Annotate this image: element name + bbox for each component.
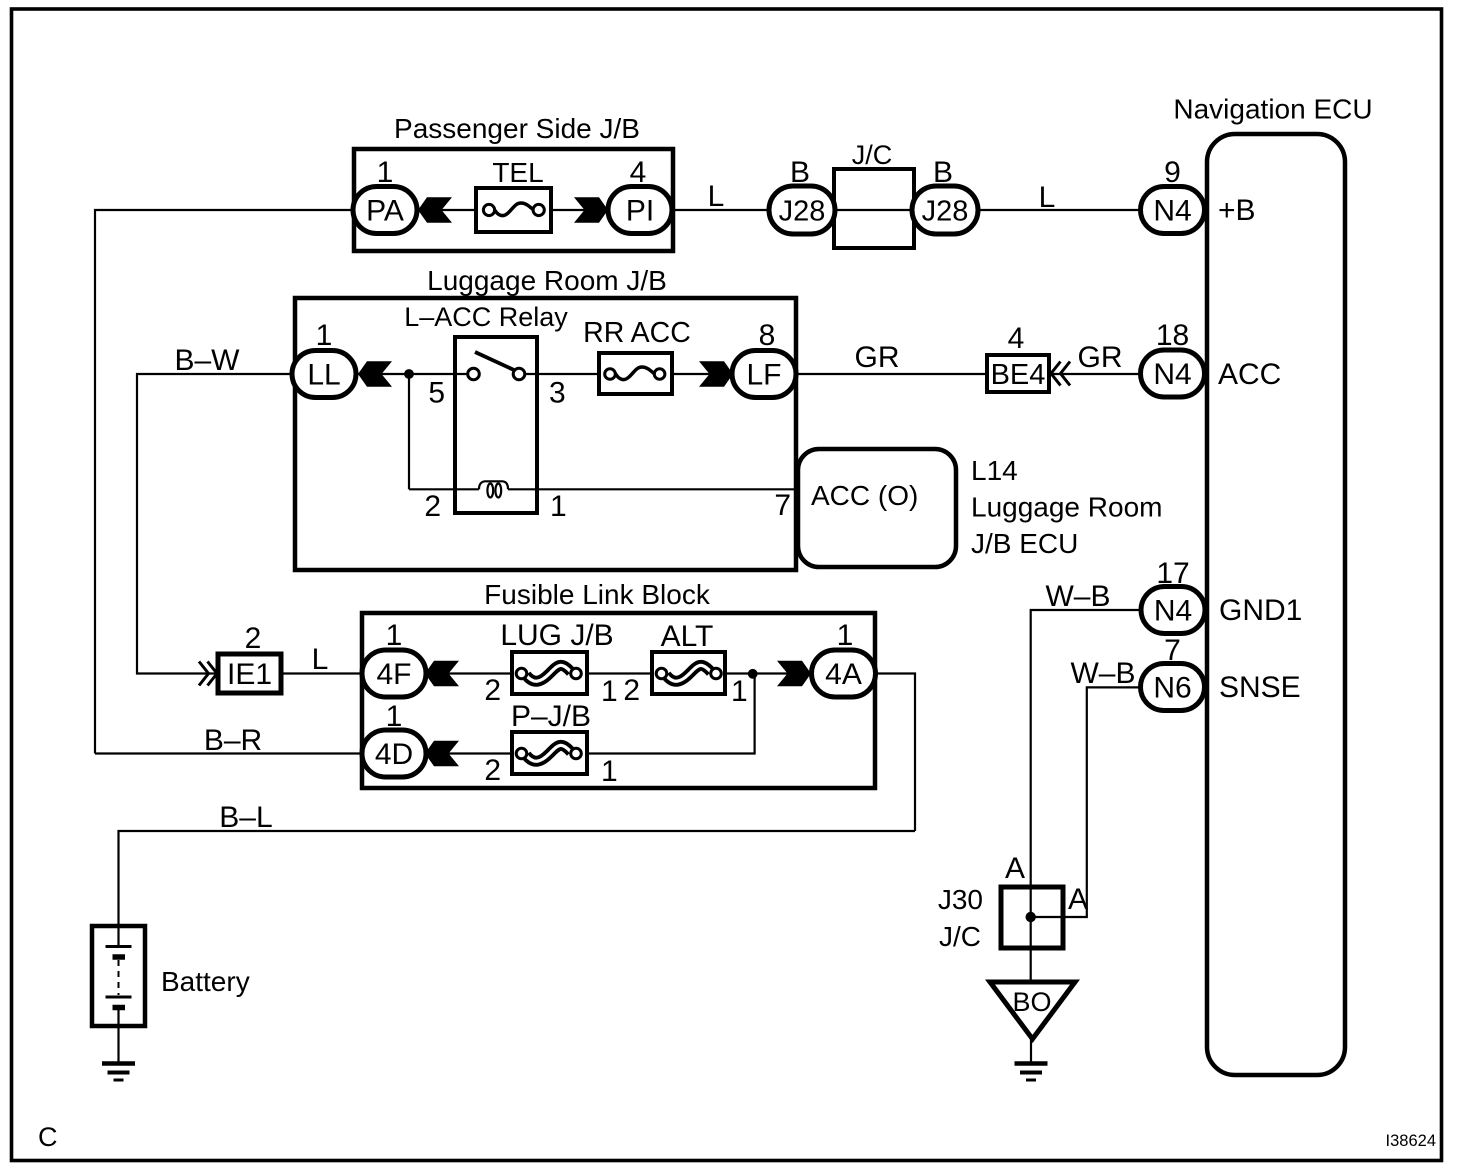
svg-text:1: 1 — [377, 156, 394, 189]
wire: 4D to P-J/B — [424, 752, 514, 754]
wire GR: BE4 to N4 pin 18 — [1047, 373, 1143, 375]
arrow: male into PI — [574, 197, 608, 222]
wire B-L: battery to 4A riser — [119, 831, 916, 946]
wire: RR ACC to LF — [670, 373, 735, 375]
relay contacts and blade — [468, 352, 525, 380]
wire: BO triangle to ground — [1030, 1036, 1032, 1062]
fusible link LUG J/B box — [512, 652, 587, 694]
fuse RR ACC element — [583, 317, 691, 380]
svg-text:7: 7 — [774, 489, 791, 522]
wire: inside J/C square — [836, 209, 912, 211]
svg-text:2: 2 — [623, 674, 640, 707]
fuse RR ACC box — [599, 353, 672, 394]
connector 4D pin 1 — [362, 700, 426, 777]
svg-text:Navigation ECU: Navigation ECU — [1173, 94, 1372, 125]
connector 4F pin 1 — [362, 619, 426, 697]
svg-text:J/C: J/C — [939, 921, 981, 952]
wire: coil row right to ACC (O) pin 7 — [508, 488, 799, 490]
svg-text:9: 9 — [1164, 156, 1181, 189]
svg-text:4: 4 — [1008, 322, 1025, 355]
svg-text:1: 1 — [731, 675, 748, 708]
svg-text:Passenger Side J/B: Passenger Side J/B — [394, 113, 640, 144]
fuse TEL element — [483, 157, 544, 216]
wire: 4A right to riser down to B-L — [874, 674, 915, 832]
fusible link P-J/B element — [511, 700, 591, 761]
svg-text:GND1: GND1 — [1219, 594, 1302, 627]
svg-text:BO: BO — [1012, 987, 1051, 1017]
wire: 4F to LUG J/B — [424, 672, 514, 674]
svg-text:4F: 4F — [376, 658, 411, 691]
connector BE4 box — [987, 355, 1049, 392]
svg-text:+B: +B — [1218, 194, 1256, 227]
svg-text:2: 2 — [424, 490, 441, 523]
svg-text:PA: PA — [366, 195, 404, 228]
svg-text:L14: L14 — [971, 455, 1018, 486]
wire: LUG J/B to ALT — [585, 672, 654, 674]
svg-text:GR: GR — [855, 341, 900, 374]
wire: coil row left — [409, 488, 479, 490]
chevrons: wire continuation at BE4 — [1051, 362, 1070, 386]
connector N4 pin 17 (GND1) — [1141, 557, 1205, 634]
svg-text:PI: PI — [626, 195, 654, 228]
svg-text:IE1: IE1 — [227, 658, 272, 691]
junction node inside J30 — [1026, 912, 1036, 922]
connector J28 left, net B — [769, 156, 835, 234]
wire: LL to relay contact, with junction — [353, 373, 469, 375]
arrow: male into 4A — [777, 661, 811, 686]
svg-text:ACC (O): ACC (O) — [811, 480, 918, 511]
svg-text:7: 7 — [1164, 634, 1181, 667]
svg-text:B–L: B–L — [219, 801, 272, 834]
wire: TEL to PI — [549, 209, 610, 211]
svg-text:L: L — [312, 643, 329, 676]
connector LL pin 1 — [292, 319, 356, 398]
relay coil — [479, 481, 508, 497]
svg-text:J/C: J/C — [852, 140, 893, 170]
svg-text:B–W: B–W — [174, 344, 240, 377]
wire L: IE1 to 4F — [279, 672, 364, 674]
arrow: female into 4F — [425, 661, 459, 686]
svg-text:4D: 4D — [375, 738, 413, 771]
ground shield BO triangle — [990, 982, 1075, 1039]
arrow: male into LF — [699, 361, 733, 386]
svg-text:1: 1 — [601, 675, 618, 708]
ground (BO) — [1015, 1064, 1048, 1081]
wire L: J28 to N4 pin 9 — [972, 209, 1143, 211]
fusible link ALT element — [656, 620, 721, 681]
battery cell plates — [106, 947, 132, 1008]
wire: battery to ground — [117, 1008, 119, 1062]
wire W-B: N4 pin 17 GND1 to J30 and BO — [1031, 610, 1143, 983]
Luggage Room J/B block — [295, 265, 796, 570]
svg-text:B: B — [790, 156, 810, 189]
wire W-B: N6 pin 7 SNSE down to J30 — [1031, 687, 1143, 917]
wire: ALT to 4A with junction — [723, 672, 813, 674]
wire: PA to TEL — [414, 209, 478, 211]
svg-text:B: B — [933, 156, 953, 189]
connector PA pin 1 — [353, 156, 417, 234]
J/C junction connector square (top) — [834, 140, 914, 248]
fusible link P-J/B box — [512, 732, 587, 774]
svg-text:I38624: I38624 — [1386, 1132, 1436, 1150]
svg-text:LF: LF — [746, 359, 781, 392]
svg-text:ALT: ALT — [661, 620, 714, 653]
svg-text:J28: J28 — [779, 196, 826, 228]
svg-text:17: 17 — [1156, 557, 1189, 590]
J30 J/C junction connector square — [938, 884, 1063, 952]
arrow: female into 4D — [425, 741, 459, 766]
svg-text:1: 1 — [316, 319, 333, 352]
wire L: PI to J28 — [670, 209, 775, 211]
wire: row1 PA feed from left riser — [95, 210, 354, 754]
svg-text:P–J/B: P–J/B — [511, 700, 591, 733]
fuse TEL box — [476, 188, 551, 232]
battery box — [92, 926, 145, 1026]
svg-text:3: 3 — [549, 377, 566, 410]
chevrons: wire continuation into IE1 — [199, 662, 217, 686]
svg-text:A: A — [1005, 852, 1025, 885]
svg-text:4: 4 — [630, 156, 647, 189]
connector N4 pin 9 (+B) — [1141, 156, 1205, 234]
wire GR: LF to BE4 — [793, 373, 989, 375]
connector N4 pin 18 (ACC) — [1141, 319, 1205, 397]
fusible link LUG J/B element — [500, 619, 613, 681]
svg-text:ACC: ACC — [1218, 358, 1281, 391]
svg-text:N6: N6 — [1153, 672, 1191, 705]
Navigation ECU block — [1173, 94, 1372, 1076]
wire B-W: LL to left riser down to IE1 — [137, 374, 297, 674]
connector PI pin 4 — [608, 156, 672, 234]
svg-text:Battery: Battery — [161, 966, 250, 997]
svg-text:18: 18 — [1156, 319, 1189, 352]
svg-text:8: 8 — [759, 319, 776, 352]
connector 4A pin 1 — [812, 619, 876, 697]
arrow: female into PA — [418, 197, 452, 222]
junction node after ALT — [748, 669, 758, 679]
svg-text:Luggage Room J/B: Luggage Room J/B — [427, 265, 667, 296]
svg-text:L: L — [708, 180, 725, 213]
svg-text:J/B ECU: J/B ECU — [971, 528, 1078, 559]
svg-text:N4: N4 — [1154, 595, 1192, 628]
fusible link ALT box — [652, 652, 725, 694]
relay L-ACC Relay box — [404, 302, 568, 513]
svg-text:2: 2 — [484, 674, 501, 707]
svg-text:J28: J28 — [922, 196, 969, 228]
svg-text:5: 5 — [428, 377, 445, 410]
svg-text:J30: J30 — [938, 884, 983, 915]
svg-text:LUG J/B: LUG J/B — [500, 619, 613, 652]
wire: P-J/B right riser up to ALT junction — [585, 674, 755, 754]
svg-text:1: 1 — [601, 755, 618, 788]
svg-text:N4: N4 — [1153, 358, 1191, 391]
svg-text:TEL: TEL — [492, 157, 543, 188]
svg-text:C: C — [38, 1122, 58, 1152]
svg-text:1: 1 — [837, 619, 854, 652]
wire: relay contact to RR ACC — [524, 373, 601, 375]
arrow: female into LL — [358, 361, 392, 386]
svg-text:1: 1 — [386, 700, 403, 733]
svg-text:1: 1 — [550, 490, 567, 523]
svg-text:W–B: W–B — [1070, 657, 1135, 690]
svg-text:Fusible Link Block: Fusible Link Block — [484, 579, 711, 610]
wire: junction down to relay coil — [408, 374, 410, 489]
svg-text:1: 1 — [386, 619, 403, 652]
Fusible Link Block — [362, 579, 875, 788]
svg-text:A: A — [1068, 883, 1088, 916]
svg-text:SNSE: SNSE — [1219, 671, 1301, 704]
svg-text:GR: GR — [1078, 341, 1123, 374]
wire B-R: left riser to 4D — [95, 752, 364, 754]
connector J28 right, net B — [912, 156, 978, 234]
ground (battery) — [102, 1064, 135, 1081]
svg-text:RR ACC: RR ACC — [583, 317, 691, 349]
svg-text:L: L — [1039, 181, 1056, 214]
svg-text:B–R: B–R — [204, 724, 262, 757]
svg-text:4A: 4A — [825, 658, 862, 691]
svg-text:BE4: BE4 — [991, 359, 1046, 391]
connector LF pin 8 — [732, 319, 796, 398]
junction node on LL wire — [404, 369, 414, 379]
L14 Luggage Room J/B ECU box (ACC (O)) — [798, 449, 1162, 567]
svg-text:LL: LL — [307, 359, 340, 392]
Passenger Side J/B block — [354, 113, 673, 251]
connector IE1 box — [218, 654, 281, 693]
svg-text:N4: N4 — [1153, 195, 1191, 228]
svg-text:Luggage Room: Luggage Room — [971, 492, 1162, 523]
svg-text:W–B: W–B — [1045, 580, 1110, 613]
svg-text:L–ACC Relay: L–ACC Relay — [404, 302, 568, 332]
svg-text:2: 2 — [484, 754, 501, 787]
svg-text:2: 2 — [245, 622, 262, 655]
connector N6 pin 7 (SNSE) — [1141, 634, 1205, 711]
